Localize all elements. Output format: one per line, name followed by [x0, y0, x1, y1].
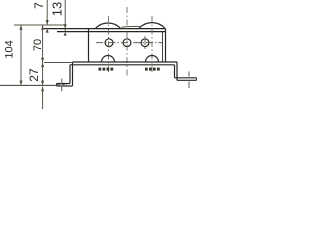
bracket right step outer [176, 62, 178, 80]
flange hole cross dash left [57, 84, 67, 86]
nut dome right [146, 56, 159, 63]
nut block right [145, 68, 160, 71]
bracket top plate bottom surface [70, 64, 175, 66]
dim line 104 [20, 25, 22, 85]
dome right [139, 23, 165, 29]
nut block left [99, 68, 114, 71]
dim line 70 / 27 [42, 25, 44, 85]
body right wall inner [162, 32, 164, 62]
centerline main [126, 7, 128, 78]
saddle line between domes [121, 25, 140, 28]
bracket top plate top surface [73, 61, 178, 63]
flange hole centerline right [188, 72, 190, 89]
dome left [96, 23, 121, 28]
svg-text:13: 13 [50, 2, 65, 16]
hole row centerline [96, 42, 162, 44]
svg-text:27: 27 [27, 68, 41, 82]
svg-text:70: 70 [32, 39, 44, 51]
centerline left dome [108, 16, 110, 72]
bracket right flange top [175, 77, 197, 79]
centerline right hole tick [144, 36, 146, 50]
extension line: dome-top tangent [14, 24, 65, 26]
hole circle left [105, 39, 113, 47]
hole circle middle [123, 39, 131, 47]
dim line 13 [64, 0, 66, 32]
svg-text:7: 7 [32, 2, 46, 9]
hole circle right [141, 39, 149, 47]
body left wall [88, 29, 90, 62]
body top inner edge [57, 31, 166, 33]
centerline right dome [151, 16, 153, 72]
bracket left step outer [72, 62, 74, 86]
bracket right flange end cap [196, 78, 198, 81]
bracket left step inner [69, 65, 71, 84]
body right wall outer [165, 29, 167, 62]
bracket right step inner [174, 65, 176, 78]
bracket left flange end cap [56, 84, 58, 87]
svg-text:104: 104 [4, 40, 16, 58]
extension line bottom [0, 84, 57, 86]
nut dome left [102, 56, 115, 63]
dim tail below 27 [42, 87, 44, 109]
bracket left flange top [57, 83, 71, 85]
extension line: rail top [44, 61, 73, 63]
flange hole centerline left [61, 79, 63, 92]
bracket right flange bottom [177, 79, 197, 81]
dim line 7 [46, 0, 48, 25]
body top edge [44, 28, 166, 30]
bracket left flange bottom [57, 85, 73, 87]
